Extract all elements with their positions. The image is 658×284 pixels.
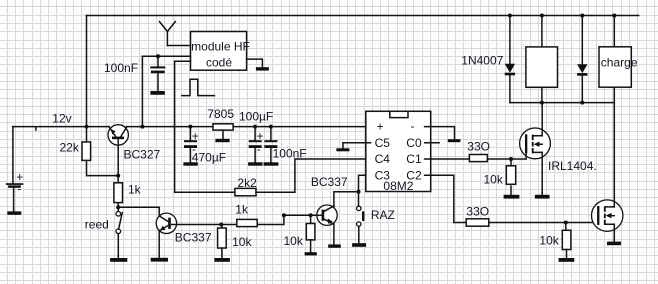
node RAZ/C3pin junction [357,190,361,194]
wire 12v rail left segment [13,126,109,128]
wire Q5 source down [613,224,615,241]
wire 10k4 stub [510,159,512,167]
svg-text:10k: 10k [284,234,304,248]
wire left drop from top to 12v rail [86,16,88,128]
wire charge top lead [613,16,615,47]
svg-text:33O: 33O [467,139,490,153]
resistor R5 2k2 [235,188,256,195]
svg-text:2k2: 2k2 [237,176,257,190]
svg-text:codé: codé [206,55,232,69]
wire module supply drop to rail [141,56,143,126]
wire 10k4 to ground [510,186,512,195]
resistor R8 10k [506,166,515,185]
node reed junction [116,205,120,209]
node 100uF on rail [253,125,257,129]
svg-text:RAZ: RAZ [371,208,395,222]
wire module data pin [175,60,191,62]
node gate/10k4 junction [509,157,513,161]
svg-text:-: - [411,119,415,133]
wire IRL1404 drain up [541,103,543,136]
ground Q5 source [607,242,621,246]
box bridge [526,47,558,87]
node rail/22k junction [85,125,89,129]
IC U1 08M2 [366,111,431,191]
capacitor C3 100uF [249,127,264,163]
transistor Q2 BC337 bottom [156,213,176,233]
svg-text:470µF: 470µF [192,151,226,165]
resistor R2 1k [114,183,123,203]
wire IRL1404 source down [541,152,543,194]
wire Q2 base to 1k [171,224,237,226]
wire D2 top lead [581,16,583,65]
wire node to C3 pin [359,175,371,192]
ground 470uF [183,162,197,165]
wire charge bottom lead [613,87,615,102]
svg-text:12v: 12v [52,111,71,125]
resistor R4 1k [237,219,257,226]
wire 2k2 to C4 pin [256,159,371,192]
ground Q2 emitter [151,258,168,262]
diode D2 [577,64,587,76]
wire battery drop [12,127,14,183]
regulator U3 7805 [213,124,233,139]
svg-text:100nF: 100nF [104,61,138,75]
wire minus pin to ground [425,127,455,140]
wire module right pin to ground [247,59,263,67]
node top D2 [580,14,584,18]
wire C1 pin to 330 [425,158,470,160]
svg-text:IRL1404.: IRL1404. [548,159,597,173]
wire RAZ to ground [358,226,360,243]
svg-text:-: - [257,142,261,156]
wire 330 to gate [487,158,526,160]
wire 12v rail right segment [126,126,370,128]
ground 7805 [215,139,229,142]
svg-text:1N4007: 1N4007 [461,54,503,68]
wire 10k to ground [221,248,223,258]
transistor Q3 BC337 middle [317,205,337,225]
wire C2 pin to 330b [425,175,467,222]
wire C0 stub [425,142,440,144]
ground 100uF [248,162,262,165]
wire C5 pin to ground [343,142,371,144]
ground 10k2 [305,252,317,255]
resistor R1 22k [82,142,91,161]
wire Q5 drain up [613,103,615,207]
wire Q2 emitter to ground [158,231,160,258]
battery BAT1 [6,170,23,195]
node tick on rail [35,127,37,130]
wire D1 bottom lead [509,75,511,102]
node base junction [116,174,120,178]
wire reed to ground [117,234,119,258]
node supply drop on rail [140,125,144,129]
switch RAZ [357,192,365,227]
wire reed junction to Q2 collector [118,207,159,216]
svg-text:C0: C0 [406,136,422,150]
svg-text:module HF: module HF [191,40,250,54]
capacitor C2 470uF [184,127,199,163]
ground C5 [336,148,349,151]
wire box1 bottom lead [541,87,543,102]
node 470uF on rail [188,125,192,129]
module HF box U2 [191,32,247,71]
ground Q3 emitter [328,244,341,247]
wire D2 bottom lead [581,76,583,103]
wire 1k to reed [117,203,119,211]
node top D1 [508,14,512,18]
svg-text:10k: 10k [232,235,252,249]
svg-text:1k: 1k [235,202,249,216]
node bottom box1 [540,101,544,105]
wire antenna to module [167,45,190,47]
antenna [160,22,176,46]
node top charge [612,14,616,18]
diode D1 1N4007 [505,64,515,75]
resistor R7 330 [469,155,487,162]
svg-text:+: + [377,120,384,134]
svg-text:BC337: BC337 [311,175,348,189]
ground minus pin [448,139,461,142]
node bottom D2 [580,101,584,105]
ground module [256,67,269,70]
resistor R9 330 [466,219,489,226]
wire D1 top lead [509,16,511,64]
ground 100nF2 [264,162,279,165]
svg-text:C5: C5 [375,136,391,150]
wire box1 top lead [541,16,543,47]
wire 1k to Q3 base wire [257,215,284,224]
ground RAZ [352,243,366,247]
svg-text:10k: 10k [539,234,559,248]
svg-text:BC327: BC327 [124,147,161,161]
wire Q3 collector up to node [334,192,359,207]
wire 10k stub [221,225,223,229]
wire 22k bottom to base junction [87,161,119,176]
resistor R3 10k [218,228,227,248]
svg-text:charge: charge [601,56,638,70]
node 1k jog junction [282,213,286,217]
wire battery to ground [13,188,15,212]
transistor Q1 BC327 [108,125,128,145]
wire 10k3 to ground [566,250,568,259]
svg-text:7805: 7805 [207,107,234,121]
node gate2/10k3 junction [564,221,568,225]
ground IRL1404 source [535,195,550,199]
svg-text:C1: C1 [406,152,422,166]
pulse waveform symbol [182,79,215,95]
wire 330b to gate2 [489,222,598,224]
svg-text:-: - [17,182,21,196]
wire module data down and to 2k2 [175,61,235,192]
capacitor C4 100nF [264,127,277,163]
wire 10k2 stub [310,215,312,223]
wire 10k2 to ground [310,240,312,253]
switch reed [116,212,122,234]
wire top supply [87,15,639,17]
svg-text:22k: 22k [60,141,80,155]
node top box1 [540,14,544,18]
node cap junction [156,54,160,58]
node 100nF2 on rail [269,125,273,129]
box charge [599,47,631,87]
wire C5 ground stub [342,143,344,149]
ground battery [7,211,21,214]
capacitor C1 100nF [150,56,165,91]
wire 22k top lead [86,127,88,142]
ground 10k3 [559,258,575,262]
ground 10k [214,258,230,262]
svg-text:10k: 10k [484,173,504,187]
MOSFET Q4 IRL1404 [520,128,551,159]
resistor R6 10k [306,224,315,240]
ground 100nF [150,91,164,95]
wire module supply pin [142,55,190,57]
svg-text:100µF: 100µF [239,110,273,124]
node Q2 base/10k junction [219,223,223,227]
ground 10k4 [504,195,520,199]
svg-text:BC337: BC337 [175,231,212,245]
wire Q3 emitter to ground [333,224,335,245]
svg-text:33O: 33O [466,205,489,219]
svg-text:08M2: 08M2 [383,179,413,193]
wire bottom link [510,102,614,104]
resistor R10 10k [562,230,571,249]
ground reed [110,258,127,262]
MOSFET Q5 [592,200,623,231]
wire Q3 base [284,214,322,216]
wire 10k3 stub [565,223,567,231]
svg-text:reed: reed [85,218,109,232]
svg-text:C4: C4 [375,152,391,166]
node 10k2 junction [309,213,313,217]
svg-text:1k: 1k [128,183,142,197]
wire BC327 base down [117,139,119,183]
